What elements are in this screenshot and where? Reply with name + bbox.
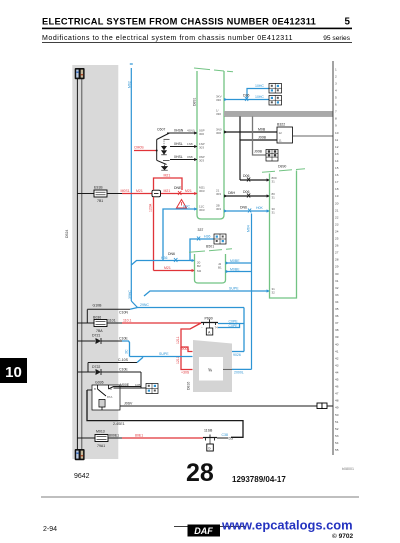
warning triangle <box>177 200 187 209</box>
wire 800 to D890 pin with splice D06 <box>240 174 270 182</box>
wire C607 pin 0SP top <box>167 129 197 134</box>
svg-text:M0S1: M0S1 <box>121 189 130 193</box>
connector D891 pin labels <box>199 95 222 213</box>
svg-text:74: 74 <box>215 326 219 330</box>
svg-text:14: 14 <box>335 159 339 163</box>
section tab 10 <box>0 358 27 383</box>
svg-text:31: 31 <box>272 180 276 184</box>
wire M21 red main <box>121 189 198 194</box>
inline connector on J0SV <box>317 403 333 409</box>
svg-text:39: 39 <box>335 335 339 339</box>
wire 80E1 red <box>122 434 203 439</box>
svg-text:17: 17 <box>335 180 339 184</box>
svg-text:40: 40 <box>335 342 339 346</box>
wire J0SV long to right edge <box>120 402 317 407</box>
svg-text:337: 337 <box>198 228 204 232</box>
wire 9026 blue from D816 <box>232 352 244 358</box>
svg-text:© 9702: © 9702 <box>332 532 353 540</box>
svg-text:300: 300 <box>216 131 221 135</box>
relay G036 <box>92 381 120 411</box>
wire B322 output to edge <box>293 135 334 137</box>
svg-text:16: 16 <box>335 173 339 177</box>
svg-text:D524: D524 <box>65 230 69 238</box>
svg-text:303: 303 <box>199 146 204 150</box>
svg-text:39HC: 39HC <box>128 290 132 299</box>
svg-text:M21: M21 <box>164 174 171 178</box>
svg-text:41: 41 <box>335 349 339 353</box>
svg-text:11SB: 11SB <box>204 429 213 433</box>
svg-text:0HSN: 0HSN <box>174 129 184 133</box>
svg-text:32: 32 <box>335 286 339 290</box>
svg-text:800E1: 800E1 <box>109 434 119 438</box>
wire H0K blue to D890 <box>224 206 270 213</box>
connector bottom (battery) <box>75 449 85 460</box>
svg-text:11: 11 <box>279 139 282 143</box>
svg-text:H36: H36 <box>161 256 167 260</box>
svg-text:12: 12 <box>335 145 339 149</box>
svg-text:H9C: H9C <box>183 205 190 209</box>
svg-text:M21: M21 <box>185 189 192 193</box>
sheet number 28 <box>186 459 214 487</box>
svg-text:28: 28 <box>186 459 214 487</box>
svg-text:29NC: 29NC <box>140 303 149 307</box>
svg-text:10HC: 10HC <box>255 95 264 99</box>
svg-text:10B: 10B <box>135 383 140 387</box>
svg-text:D721: D721 <box>92 334 100 338</box>
svg-text:M0BE: M0BE <box>230 267 240 271</box>
svg-text:H0K: H0K <box>256 206 263 210</box>
svg-text:79A1: 79A1 <box>97 444 105 448</box>
fuse M013 <box>77 430 122 449</box>
svg-text:43: 43 <box>335 363 339 367</box>
svg-text:DN6: DN6 <box>168 252 175 256</box>
wire to B322 pin 1 <box>224 128 277 133</box>
svg-text:303: 303 <box>216 192 221 196</box>
wire C0PE blue pair from P600 <box>218 320 244 329</box>
svg-text:C10E: C10E <box>119 337 128 341</box>
svg-text:2: 2 <box>335 74 337 78</box>
connector D890 <box>262 165 305 299</box>
svg-text:SUPE: SUPE <box>159 352 169 356</box>
connector D891 <box>193 68 234 219</box>
sheet footnote 9642 <box>74 473 90 480</box>
svg-text:49: 49 <box>335 406 339 410</box>
svg-text:20: 20 <box>335 201 339 205</box>
drawing number <box>232 475 286 484</box>
svg-text:B2: B2 <box>197 264 201 268</box>
svg-text:M21: M21 <box>164 189 171 193</box>
svg-text:48: 48 <box>335 399 339 403</box>
svg-text:B: B <box>94 387 96 391</box>
svg-text:10: 10 <box>335 131 339 135</box>
svg-text:H36: H36 <box>204 235 210 239</box>
svg-text:C0PE: C0PE <box>229 324 239 328</box>
svg-text:M21: M21 <box>164 266 171 270</box>
svg-text:C38: C38 <box>222 433 228 437</box>
node D524 label <box>65 230 69 238</box>
svg-text:110.1: 110.1 <box>123 319 132 323</box>
diode D721 row <box>78 334 130 357</box>
wire CM0S red stub into C607 <box>134 146 158 152</box>
svg-text:330: 330 <box>216 112 221 116</box>
wire M64 blue trunk <box>247 214 252 370</box>
connector box J00B <box>266 150 278 162</box>
svg-text:31: 31 <box>272 211 276 215</box>
svg-text:87A: 87A <box>107 395 112 399</box>
svg-text:34: 34 <box>335 300 339 304</box>
svg-text:P600: P600 <box>205 317 213 321</box>
chassis harness shading band <box>72 65 118 459</box>
svg-text:J00B: J00B <box>258 136 267 140</box>
svg-text:M21: M21 <box>136 189 143 193</box>
svg-text:303: 303 <box>199 159 204 163</box>
wire riser to connector 337 <box>190 228 214 261</box>
svg-text:7: 7 <box>335 110 337 114</box>
footer rule <box>41 496 359 498</box>
svg-text:D3: D3 <box>229 437 234 441</box>
svg-text:25: 25 <box>335 237 339 241</box>
wire C607 pin 0SP bottom <box>170 155 197 160</box>
unit D816 shaded <box>187 340 233 392</box>
svg-text:J00B: J00B <box>254 150 263 154</box>
svg-text:2-94: 2-94 <box>43 526 57 533</box>
svg-text:9: 9 <box>335 124 337 128</box>
ground bus bar (thick gray) <box>224 111 333 117</box>
svg-text:27: 27 <box>335 251 339 255</box>
svg-text:2-4SE1: 2-4SE1 <box>113 422 125 426</box>
wire 123A red riser to B501 <box>149 197 154 271</box>
svg-text:D8H: D8H <box>228 191 235 195</box>
fuse B036 <box>77 316 122 334</box>
wire D8H to D890 with splice D06 <box>224 190 270 198</box>
svg-text:www.epcatalogs.com: www.epcatalogs.com <box>221 518 353 533</box>
svg-text:C607: C607 <box>157 128 165 132</box>
plot code <box>342 467 354 471</box>
unit B501 <box>189 245 232 284</box>
svg-text:3: 3 <box>335 81 337 85</box>
svg-text:900L: 900L <box>182 347 190 351</box>
svg-text:28: 28 <box>335 258 339 262</box>
wire C-10S row <box>88 357 143 372</box>
svg-text:B501: B501 <box>206 245 214 249</box>
svg-text:47: 47 <box>335 392 339 396</box>
wire C607 pin 1SP mid <box>170 142 197 147</box>
svg-text:D06: D06 <box>243 174 249 178</box>
svg-text:G10B: G10B <box>93 304 103 308</box>
copyright <box>332 532 353 540</box>
svg-text:C10E: C10E <box>119 368 128 372</box>
wire 2-4SE1 <box>87 390 243 437</box>
svg-text:G036: G036 <box>95 381 104 385</box>
svg-text:M0BE: M0BE <box>230 259 240 263</box>
wire M62 top tick <box>130 63 133 65</box>
wire B322 pin 2 L-branch <box>240 136 277 181</box>
svg-text:J0SV: J0SV <box>124 402 133 406</box>
svg-text:53: 53 <box>335 434 339 438</box>
svg-text:23: 23 <box>335 222 339 226</box>
svg-text:12: 12 <box>279 131 283 135</box>
wire SUPE lower <box>130 352 193 357</box>
switch B411 <box>203 429 233 452</box>
wire H9C blue from D891 <box>163 205 197 261</box>
svg-text:50: 50 <box>335 413 339 417</box>
unit B322 <box>277 123 293 144</box>
svg-text:M62: M62 <box>128 81 132 88</box>
svg-text:32: 32 <box>272 291 276 295</box>
wire H36 blue row <box>131 252 194 265</box>
svg-text:B036: B036 <box>93 316 101 320</box>
svg-text:303: 303 <box>216 207 221 211</box>
svg-text:M00E: M00E <box>120 383 130 387</box>
svg-text:21: 21 <box>335 208 339 212</box>
svg-text:D891: D891 <box>193 98 197 106</box>
svg-text:DNE: DNE <box>174 186 182 190</box>
svg-text:7B1: 7B1 <box>97 199 103 203</box>
svg-text:46: 46 <box>335 385 339 389</box>
svg-text:1211: 1211 <box>176 336 180 344</box>
svg-text:1293789/04-17: 1293789/04-17 <box>232 475 286 484</box>
svg-text:22: 22 <box>335 215 339 219</box>
svg-text:0HSL: 0HSL <box>174 155 183 159</box>
svg-text:DN6: DN6 <box>240 206 247 210</box>
svg-text:CM0S: CM0S <box>134 146 144 150</box>
watermark epcatalogs <box>221 518 353 533</box>
svg-text:51: 51 <box>335 420 339 424</box>
svg-text:35: 35 <box>335 307 339 311</box>
wire G105 row to node 29NC <box>87 303 244 323</box>
wire M62 blue trunk <box>128 68 138 308</box>
svg-text:2000L: 2000L <box>234 371 244 375</box>
svg-text:DAF: DAF <box>194 526 213 536</box>
svg-text:D890: D890 <box>278 165 286 169</box>
wire blue riser to D816 (x=244) <box>243 308 245 352</box>
svg-text:37: 37 <box>335 321 339 325</box>
svg-text:D06: D06 <box>243 190 249 194</box>
svg-text:36: 36 <box>335 314 339 318</box>
wire riser bus to B322 pin 2 <box>239 117 241 141</box>
svg-text:Modifications to the electrica: Modifications to the electrical system f… <box>42 35 293 42</box>
svg-text:15: 15 <box>335 166 339 170</box>
svg-text:7BA: 7BA <box>96 329 103 333</box>
svg-text:33: 33 <box>335 293 339 297</box>
battery feed wires (left vertical pair) <box>77 76 81 449</box>
svg-text:b08001: b08001 <box>342 467 354 471</box>
svg-text:D722: D722 <box>92 365 100 369</box>
svg-text:24: 24 <box>335 230 339 234</box>
svg-text:80E1: 80E1 <box>135 434 143 438</box>
svg-text:1211: 1211 <box>176 356 180 364</box>
wire 1101 red to P600 <box>122 319 201 324</box>
svg-text:9642: 9642 <box>74 473 90 480</box>
svg-text:30: 30 <box>335 272 339 276</box>
svg-text:5: 5 <box>345 17 351 28</box>
svg-text:95 series: 95 series <box>323 35 350 42</box>
svg-text:19: 19 <box>335 194 339 198</box>
svg-text:M013: M013 <box>96 430 105 434</box>
svg-text:0HSL: 0HSL <box>174 142 183 146</box>
header title <box>42 17 352 30</box>
wire B501 outputs blue <box>226 259 252 272</box>
relay C607 <box>157 128 170 171</box>
svg-text:3D3: 3D3 <box>199 189 205 193</box>
connector box 337 <box>214 234 226 244</box>
svg-text:9026: 9026 <box>233 353 241 357</box>
diode D722 row <box>78 365 141 388</box>
svg-text:300: 300 <box>199 132 204 136</box>
svg-text:B1: B1 <box>218 266 222 270</box>
svg-text:B322: B322 <box>277 123 285 127</box>
svg-text:C-10S: C-10S <box>118 358 129 362</box>
svg-text:6: 6 <box>335 103 337 107</box>
svg-text:29: 29 <box>335 265 339 269</box>
svg-text:M0B: M0B <box>258 128 266 132</box>
svg-text:1: 1 <box>335 67 337 71</box>
svg-text:5: 5 <box>335 96 337 100</box>
wire 2000L into D816 <box>223 369 252 374</box>
page number <box>43 526 57 533</box>
svg-text:b: b <box>209 447 211 451</box>
svg-text:4SN0: 4SN0 <box>187 129 195 133</box>
svg-text:54: 54 <box>335 441 339 445</box>
header subtitle <box>42 35 352 43</box>
svg-text:18: 18 <box>335 187 339 191</box>
svg-text:52: 52 <box>335 427 339 431</box>
svg-text:45: 45 <box>335 378 339 382</box>
svg-text:55: 55 <box>335 448 339 452</box>
svg-text:31: 31 <box>335 279 339 283</box>
wire relay to connector M00E <box>109 383 147 389</box>
connector box upper right 2 <box>269 96 282 106</box>
svg-text:26: 26 <box>335 244 339 248</box>
svg-text:M64: M64 <box>247 225 251 232</box>
connector box M00E <box>146 384 158 394</box>
svg-text:4: 4 <box>335 88 337 92</box>
wiring loom edge ruler <box>333 61 339 455</box>
svg-text:123A: 123A <box>149 203 153 212</box>
svg-text:C10N: C10N <box>119 311 128 315</box>
DAF logo <box>174 525 245 537</box>
svg-text:13: 13 <box>335 152 339 156</box>
svg-text:C0PE: C0PE <box>229 320 239 324</box>
svg-text:44: 44 <box>335 371 339 375</box>
svg-text:ELECTRICAL SYSTEM FROM CHASSIS: ELECTRICAL SYSTEM FROM CHASSIS NUMBER 0E… <box>42 17 316 27</box>
svg-text:3D3: 3D3 <box>199 208 205 212</box>
svg-text:10: 10 <box>5 364 22 381</box>
svg-text:38: 38 <box>335 328 339 332</box>
svg-text:+30S: +30S <box>181 371 190 375</box>
svg-text:1SB: 1SB <box>187 142 193 146</box>
splice DNE on M21 wire <box>174 186 182 195</box>
svg-text:8: 8 <box>335 117 337 121</box>
svg-text:0SB: 0SB <box>187 155 193 159</box>
svg-text:42: 42 <box>335 356 339 360</box>
svg-text:−: − <box>201 326 203 330</box>
fuse E196 <box>77 186 122 204</box>
svg-text:3C: 3C <box>125 349 129 354</box>
wire red P600 down to D816 pins <box>176 323 201 375</box>
svg-text:10HC: 10HC <box>255 84 264 88</box>
wire gray drop from bus to connector <box>253 117 267 156</box>
svg-text:1101: 1101 <box>108 319 116 323</box>
switch P600 <box>201 317 218 336</box>
inline connector on M21 wire <box>152 190 161 197</box>
svg-text:31: 31 <box>272 196 276 200</box>
connector top (battery) <box>75 68 85 79</box>
wire M21 red branch loop <box>154 174 183 191</box>
svg-text:SUPE: SUPE <box>229 287 239 291</box>
connector box upper right 1 <box>269 84 282 94</box>
svg-text:330: 330 <box>216 98 221 102</box>
svg-text:D816: D816 <box>187 382 191 390</box>
connector pin arrows <box>192 98 270 293</box>
svg-text:M2: M2 <box>197 269 201 273</box>
wire M21 red to B501 <box>154 266 195 271</box>
wire SUPE upper <box>144 287 270 297</box>
wire 3KV blue from D891 to connectors <box>224 84 269 101</box>
svg-text:11: 11 <box>335 138 338 142</box>
svg-text:E91B: E91B <box>94 186 103 190</box>
svg-text:D36: D36 <box>243 94 249 98</box>
